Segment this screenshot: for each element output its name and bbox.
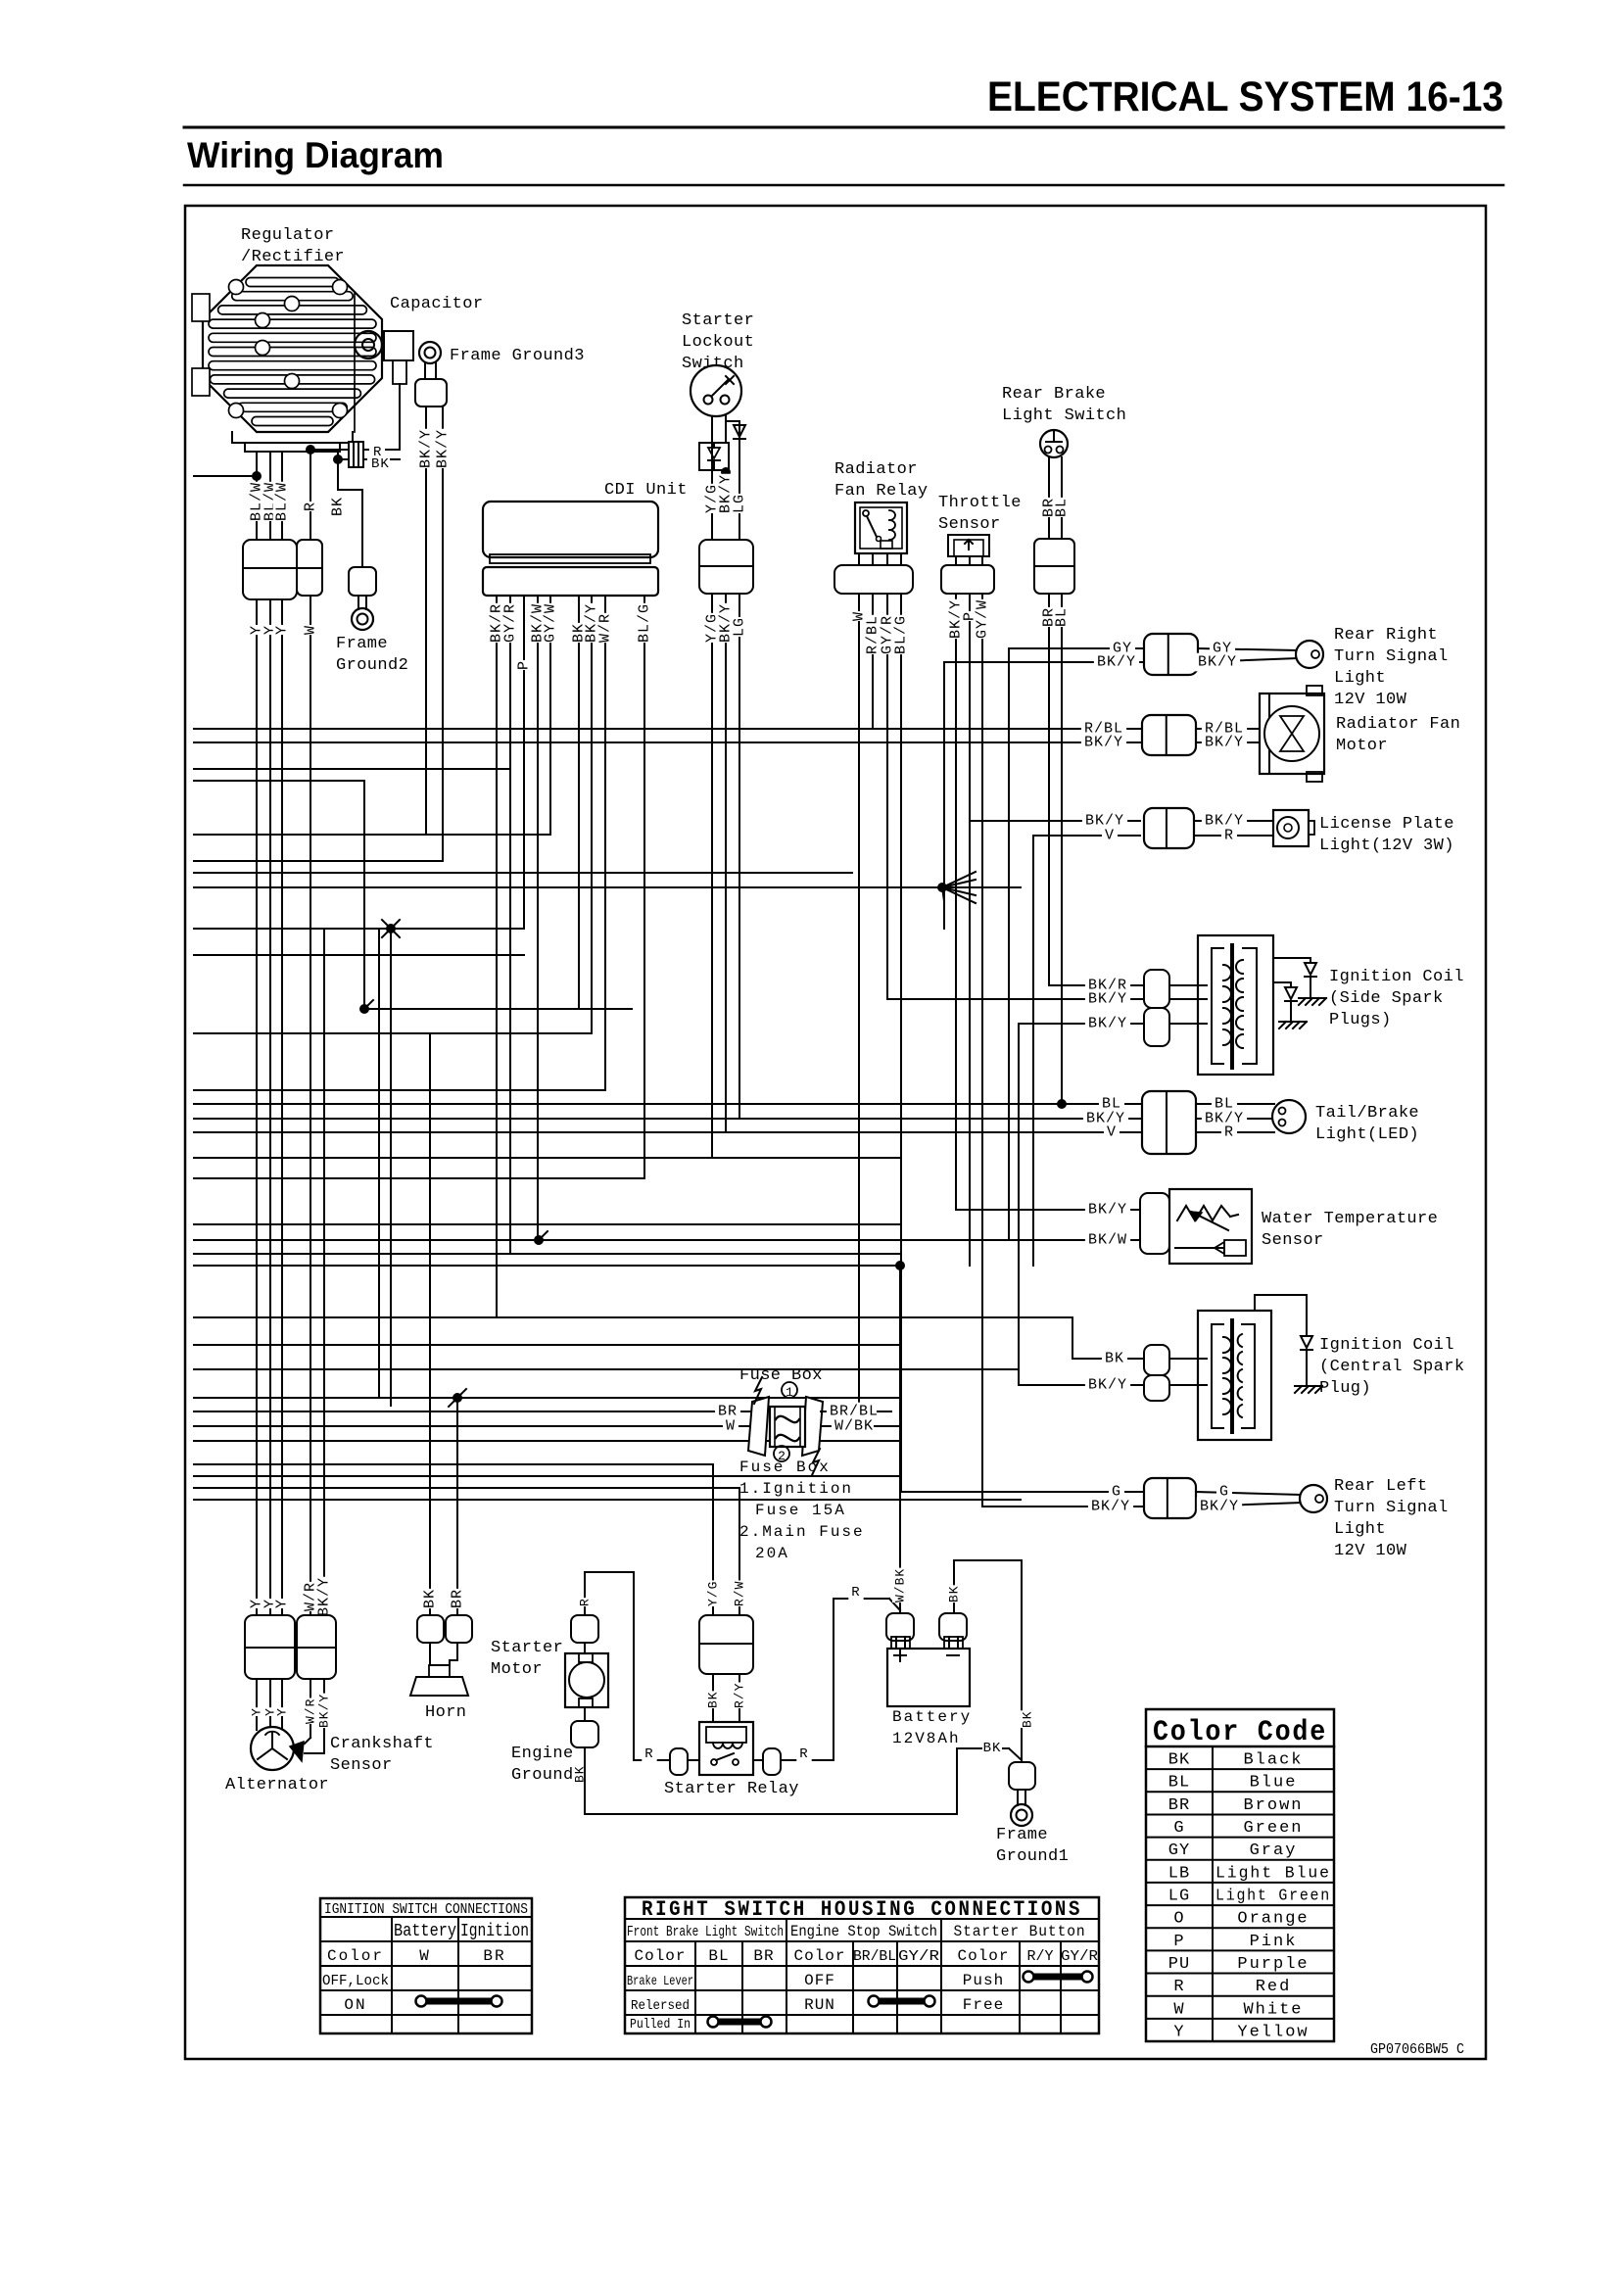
svg-text:Yellow: Yellow — [1237, 2023, 1309, 2041]
svg-text:Fuse Box: Fuse Box — [739, 1459, 831, 1476]
svg-text:Engine Stop Switch: Engine Stop Switch — [790, 1923, 937, 1940]
svg-text:Brown: Brown — [1243, 1796, 1303, 1815]
svg-text:Light Switch: Light Switch — [1002, 407, 1126, 425]
svg-text:BK: BK — [1105, 1351, 1124, 1367]
svg-text:BK/Y: BK/Y — [435, 429, 452, 468]
svg-text:BL: BL — [708, 1947, 729, 1965]
svg-text:BK/Y: BK/Y — [1091, 1499, 1130, 1515]
svg-text:Sensor: Sensor — [938, 515, 1001, 534]
svg-text:R: R — [1224, 828, 1234, 844]
svg-text:Rear Left: Rear Left — [1334, 1477, 1427, 1496]
svg-text:Wiring Diagram: Wiring Diagram — [187, 135, 444, 175]
svg-text:2.Main Fuse: 2.Main Fuse — [739, 1523, 865, 1541]
svg-text:BK/Y: BK/Y — [1198, 654, 1237, 671]
svg-text:Radiator Fan: Radiator Fan — [1336, 715, 1460, 734]
svg-text:Front Brake Light Switch: Front Brake Light Switch — [627, 1924, 784, 1940]
svg-text:Rear Brake: Rear Brake — [1002, 385, 1106, 404]
svg-text:W/R: W/R — [304, 1698, 318, 1724]
svg-text:Throttle: Throttle — [938, 494, 1022, 512]
svg-text:Rear Right: Rear Right — [1334, 626, 1438, 645]
svg-text:OFF: OFF — [804, 1972, 835, 1989]
svg-text:BK/Y: BK/Y — [317, 1694, 332, 1728]
svg-text:Push: Push — [963, 1972, 1004, 1989]
svg-text:BK: BK — [330, 497, 347, 516]
svg-text:Y: Y — [1173, 2023, 1184, 2041]
svg-text:Water Temperature: Water Temperature — [1262, 1210, 1438, 1228]
svg-text:BK/Y: BK/Y — [1088, 1202, 1127, 1219]
svg-text:R/Y: R/Y — [733, 1683, 747, 1708]
svg-text:GP07066BW5 C: GP07066BW5 C — [1370, 2041, 1464, 2058]
svg-text:BK/Y: BK/Y — [1097, 654, 1136, 671]
svg-text:OFF,Lock: OFF,Lock — [322, 1973, 389, 1989]
svg-text:Motor: Motor — [491, 1660, 543, 1679]
svg-text:Starter: Starter — [682, 311, 754, 330]
svg-text:BK: BK — [422, 1589, 439, 1608]
svg-text:Ground2: Ground2 — [336, 656, 408, 675]
svg-text:Radiator: Radiator — [834, 460, 918, 479]
svg-text:Light Blue: Light Blue — [1215, 1864, 1331, 1883]
svg-text:O: O — [1173, 1910, 1184, 1929]
svg-text:BK/Y: BK/Y — [1088, 1377, 1127, 1394]
svg-text:Plugs): Plugs) — [1329, 1011, 1392, 1029]
svg-text:Black: Black — [1243, 1751, 1303, 1770]
svg-text:Color: Color — [327, 1947, 384, 1965]
svg-text:Purple: Purple — [1237, 1955, 1309, 1974]
svg-text:White: White — [1243, 2000, 1303, 2019]
svg-text:BR: BR — [450, 1589, 466, 1608]
svg-text:Frame Ground3: Frame Ground3 — [450, 347, 585, 365]
svg-text:Y/G: Y/G — [706, 1581, 721, 1606]
svg-text:Ground1: Ground1 — [996, 1847, 1069, 1866]
svg-text:Tail/Brake: Tail/Brake — [1315, 1104, 1419, 1123]
svg-text:BL: BL — [1054, 498, 1071, 517]
svg-text:Light Green: Light Green — [1215, 1888, 1331, 1906]
svg-text:GY/R: GY/R — [1061, 1948, 1098, 1965]
svg-text:Alternator: Alternator — [225, 1776, 329, 1794]
svg-text:LB: LB — [1168, 1864, 1190, 1883]
svg-text:GY/W: GY/W — [543, 603, 559, 643]
svg-text:W: W — [419, 1947, 431, 1965]
svg-text:Starter Button: Starter Button — [954, 1923, 1086, 1940]
svg-text:Sensor: Sensor — [1262, 1231, 1324, 1250]
svg-text:Color: Color — [957, 1947, 1009, 1965]
svg-text:R/W: R/W — [733, 1581, 747, 1606]
svg-text:BR: BR — [1168, 1796, 1190, 1815]
svg-text:IGNITION SWITCH CONNECTIONS: IGNITION SWITCH CONNECTIONS — [324, 1901, 528, 1918]
svg-text:Brake Lever: Brake Lever — [627, 1974, 693, 1989]
svg-text:Engine: Engine — [511, 1745, 574, 1763]
svg-text:BL/G: BL/G — [637, 603, 653, 643]
svg-text:BR: BR — [483, 1947, 505, 1965]
svg-text:R: R — [644, 1746, 653, 1762]
svg-text:GY/R: GY/R — [898, 1948, 939, 1965]
svg-text:Light(12V 3W): Light(12V 3W) — [1319, 837, 1454, 855]
svg-text:BK: BK — [706, 1691, 721, 1708]
svg-text:12V 10W: 12V 10W — [1334, 1542, 1407, 1560]
svg-text:Y: Y — [274, 625, 291, 635]
svg-text:Sensor: Sensor — [330, 1756, 393, 1775]
svg-text:P: P — [1173, 1933, 1184, 1951]
svg-text:Plug): Plug) — [1319, 1379, 1371, 1398]
svg-text:BK/Y: BK/Y — [1200, 1499, 1239, 1515]
svg-text:Orange: Orange — [1237, 1910, 1309, 1929]
svg-text:ELECTRICAL SYSTEM 16-13: ELECTRICAL SYSTEM 16-13 — [987, 73, 1503, 120]
svg-text:W: W — [726, 1418, 736, 1435]
svg-text:BL: BL — [1054, 607, 1071, 627]
svg-text:BK: BK — [1168, 1751, 1190, 1770]
svg-text:Free: Free — [963, 1996, 1004, 2014]
svg-text:Ignition Coil: Ignition Coil — [1319, 1336, 1454, 1355]
svg-text:Light: Light — [1334, 1520, 1386, 1539]
svg-text:Pink: Pink — [1250, 1933, 1298, 1951]
svg-text:1.Ignition: 1.Ignition — [739, 1480, 853, 1498]
svg-text:Light(LED): Light(LED) — [1315, 1125, 1419, 1144]
svg-text:BK/Y: BK/Y — [1205, 735, 1244, 751]
svg-text:GY: GY — [1168, 1842, 1190, 1860]
svg-text:Horn: Horn — [425, 1703, 466, 1722]
svg-text:(Side Spark: (Side Spark — [1329, 989, 1444, 1008]
svg-text:BK: BK — [983, 1741, 1002, 1756]
svg-text:LG: LG — [732, 494, 748, 513]
svg-text:Y: Y — [250, 1707, 264, 1716]
svg-text:BK: BK — [371, 456, 390, 472]
svg-text:GY/R: GY/R — [502, 603, 519, 643]
svg-text:BR: BR — [753, 1947, 774, 1965]
svg-text:Ignition: Ignition — [460, 1922, 529, 1941]
svg-text:BL/W: BL/W — [274, 482, 291, 521]
svg-text:BL/G: BL/G — [893, 615, 910, 654]
svg-text:BL: BL — [1168, 1774, 1190, 1793]
svg-text:W/BK: W/BK — [834, 1418, 874, 1435]
svg-text:PU: PU — [1168, 1955, 1190, 1974]
svg-text:Starter: Starter — [491, 1639, 563, 1657]
svg-text:Color Code: Color Code — [1153, 1716, 1327, 1749]
svg-text:Regulator: Regulator — [241, 226, 334, 245]
svg-text:Frame: Frame — [996, 1826, 1048, 1844]
svg-text:V: V — [1107, 1124, 1117, 1141]
svg-text:20A: 20A — [755, 1545, 789, 1562]
svg-text:V: V — [1105, 828, 1115, 844]
svg-text:Y: Y — [275, 1707, 290, 1716]
svg-text:Color: Color — [634, 1947, 686, 1965]
svg-text:BK: BK — [1021, 1710, 1035, 1728]
svg-text:Starter Relay: Starter Relay — [664, 1780, 799, 1798]
svg-text:Turn Signal: Turn Signal — [1334, 647, 1449, 666]
svg-text:BK/Y: BK/Y — [1088, 991, 1127, 1008]
svg-text:RIGHT SWITCH HOUSING CONNECTIO: RIGHT SWITCH HOUSING CONNECTIONS — [642, 1897, 1082, 1922]
svg-text:R: R — [1224, 1124, 1234, 1141]
svg-text:P: P — [516, 660, 533, 670]
svg-text:Turn Signal: Turn Signal — [1334, 1499, 1449, 1517]
svg-text:BK/Y: BK/Y — [418, 429, 435, 468]
svg-text:CDI Unit: CDI Unit — [604, 481, 688, 500]
svg-text:Red: Red — [1256, 1978, 1292, 1996]
svg-text:Green: Green — [1243, 1819, 1303, 1838]
svg-text:Battery: Battery — [892, 1708, 972, 1726]
svg-text:Fuse 15A: Fuse 15A — [755, 1502, 846, 1519]
svg-text:Ground: Ground — [511, 1766, 574, 1785]
svg-text:GY/W: GY/W — [975, 599, 991, 639]
svg-text:BK/Y: BK/Y — [316, 1577, 333, 1616]
svg-text:Battery: Battery — [394, 1922, 456, 1941]
svg-text:Color: Color — [793, 1947, 845, 1965]
svg-text:Gray: Gray — [1250, 1842, 1298, 1860]
svg-text:R: R — [851, 1585, 860, 1601]
svg-text:Relersed: Relersed — [631, 1998, 690, 2014]
svg-text:12V 10W: 12V 10W — [1334, 691, 1407, 709]
svg-text:Blue: Blue — [1250, 1774, 1298, 1793]
svg-text:W: W — [303, 625, 319, 635]
svg-text:R: R — [1173, 1978, 1184, 1996]
svg-text:W/BK: W/BK — [893, 1568, 908, 1602]
svg-text:Capacitor: Capacitor — [390, 295, 483, 313]
svg-text:Frame: Frame — [336, 635, 388, 653]
svg-text:Light: Light — [1334, 669, 1386, 688]
svg-text:ON: ON — [344, 1996, 366, 2014]
svg-text:Fan Relay: Fan Relay — [834, 482, 928, 501]
svg-text:R/Y: R/Y — [1026, 1948, 1053, 1965]
svg-text:Y: Y — [274, 1599, 291, 1608]
svg-text:Ignition Coil: Ignition Coil — [1329, 968, 1464, 986]
svg-text:License Plate: License Plate — [1319, 815, 1454, 834]
svg-text:Motor: Motor — [1336, 737, 1388, 755]
svg-text:Pulled In: Pulled In — [630, 2017, 691, 2033]
svg-text:BK/W: BK/W — [1088, 1232, 1127, 1249]
svg-text:BK: BK — [947, 1585, 962, 1602]
svg-text:BK/Y: BK/Y — [1084, 735, 1123, 751]
svg-text:W/R: W/R — [597, 613, 614, 643]
svg-text:R: R — [578, 1598, 593, 1606]
svg-text:12V8Ah: 12V8Ah — [892, 1730, 961, 1747]
svg-text:Lockout: Lockout — [682, 333, 754, 352]
svg-text:R: R — [303, 502, 319, 511]
svg-text:LG: LG — [732, 617, 748, 637]
svg-text:(Central Spark: (Central Spark — [1319, 1358, 1464, 1376]
svg-text:BK/Y: BK/Y — [1088, 1016, 1127, 1032]
svg-text:W: W — [1173, 2000, 1184, 2019]
svg-text:G: G — [1173, 1819, 1184, 1838]
svg-text:R: R — [799, 1746, 808, 1762]
svg-text:LG: LG — [1168, 1888, 1190, 1906]
svg-text:Crankshaft: Crankshaft — [330, 1735, 434, 1753]
svg-text:1: 1 — [786, 1385, 793, 1400]
svg-text:Fuse Box: Fuse Box — [739, 1366, 823, 1385]
svg-text:RUN: RUN — [804, 1996, 835, 2014]
svg-text:BR/BL: BR/BL — [853, 1948, 896, 1965]
svg-text:/Rectifier: /Rectifier — [241, 248, 345, 266]
